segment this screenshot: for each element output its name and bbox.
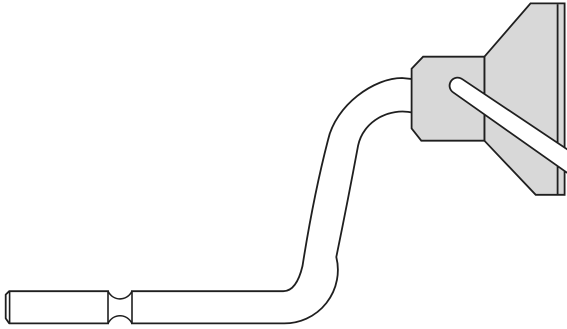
crank tube and handle shaft silhouette	[6, 78, 414, 323]
shaft end cap face line	[9, 292, 11, 324]
notch erase patch	[109, 290, 131, 326]
hub block	[412, 57, 485, 141]
cone rim inner line	[557, 4, 559, 194]
crank rod white body	[451, 79, 567, 174]
notch top dip curve	[108, 291, 132, 299]
crank rod outline	[449, 77, 567, 175]
notch left shoulder line	[107, 291, 109, 323]
cone bell body	[484, 3, 564, 194]
notch right shoulder line	[131, 291, 133, 323]
notch bottom dip curve	[108, 316, 132, 324]
